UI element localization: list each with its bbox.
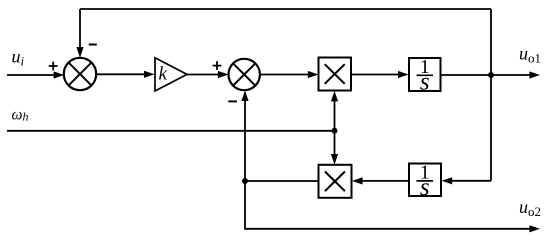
- plus sign at S2: [213, 61, 222, 70]
- minus sign (into S2 bottom): [228, 100, 237, 102]
- multiplier M1: [319, 58, 352, 91]
- wire: M2 output to node B: [245, 180, 319, 182]
- integrator U2 (1/s): [409, 162, 441, 201]
- wire: node B down and bottom output rail: [245, 181, 540, 232]
- summing junction S2: [229, 59, 260, 90]
- node C (omega junction): [332, 128, 338, 134]
- integrator U1 (1/s): [409, 56, 441, 95]
- wire: U2 to multiplier M2: [352, 177, 409, 184]
- multiplier M2: [319, 165, 352, 198]
- svg-text:ωh: ωh: [12, 106, 29, 123]
- node: output junction: [488, 72, 494, 78]
- label omega_h: [12, 106, 29, 123]
- wire: omega_h input: [7, 130, 335, 132]
- svg-text:s: s: [420, 174, 430, 201]
- wire: feedback into U2: [442, 177, 491, 184]
- node B: [242, 178, 248, 184]
- wire: feedback down into S1: [76, 9, 83, 58]
- wire: node C down into M2: [331, 131, 338, 165]
- wire: top feedback rail: [80, 8, 491, 10]
- wire: M1 to integrator U1: [351, 71, 409, 78]
- svg-text:ui: ui: [12, 47, 25, 69]
- gain k (triangle): [155, 58, 187, 91]
- svg-text:uo2: uo2: [519, 197, 541, 219]
- svg-text:s: s: [420, 68, 430, 95]
- plus sign at S1: [49, 62, 58, 71]
- svg-text:uo1: uo1: [519, 44, 541, 66]
- wire: node B up into S2: [241, 90, 248, 181]
- summing junction S1: [64, 58, 96, 90]
- wire: S2 to multiplier M1: [260, 71, 319, 78]
- wire: node C up into M1: [331, 91, 338, 131]
- wire: input u_i: [7, 71, 64, 78]
- label u_i: [12, 47, 25, 69]
- minus sign (feedback into S1): [89, 44, 97, 46]
- svg-text:k: k: [159, 64, 168, 85]
- label u_o2: [519, 197, 541, 219]
- wire: S1 to gain k: [96, 71, 154, 78]
- label u_o1: [519, 44, 541, 66]
- wire: output u_o1: [441, 71, 541, 78]
- wire: right feedback vertical: [490, 9, 492, 181]
- wire: k to S2: [187, 71, 229, 78]
